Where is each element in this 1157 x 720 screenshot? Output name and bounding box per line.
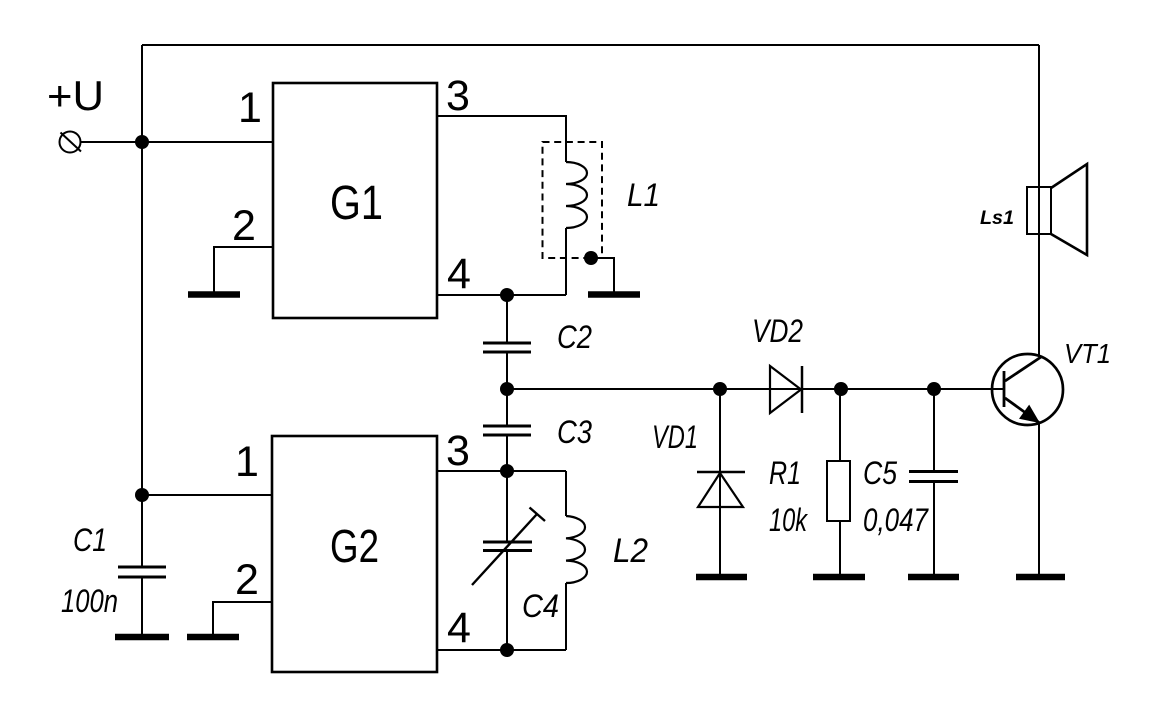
svg-text:0,047: 0,047 [863, 502, 929, 538]
inductor L1 [566, 162, 587, 228]
wire C5 top lead [933, 389, 935, 470]
wire G2 pin 2 [213, 602, 272, 634]
svg-text:G2: G2 [330, 520, 379, 572]
capacitor C1 [118, 567, 166, 577]
wire G1 pin 1 [142, 141, 273, 143]
node C1-pin1 junction [135, 488, 149, 502]
capacitor C2 [483, 343, 531, 352]
svg-text:C4: C4 [522, 588, 559, 624]
svg-text:L1: L1 [627, 177, 660, 213]
wire G1 pin 3 [437, 116, 566, 162]
wire G2 pin 1 [142, 494, 272, 496]
ground VD1 [696, 574, 747, 581]
wire R1 bottom lead [839, 521, 841, 574]
node pin4-C4 junction [500, 643, 514, 657]
wire G1 pin 4 [437, 294, 566, 296]
L1 shield box (dashed) [543, 142, 603, 258]
svg-text:3: 3 [446, 427, 470, 475]
ground C1 [115, 634, 169, 641]
wire L1 bottom [565, 228, 567, 295]
wire C2 bottom lead [506, 354, 508, 390]
wire VD1 branch [719, 389, 721, 574]
variable capacitor C4 [483, 542, 532, 551]
node L1 shield tap [584, 251, 598, 265]
svg-text:1: 1 [238, 84, 262, 132]
wire C1 bottom lead [141, 579, 143, 635]
wire emitter to ground [1038, 423, 1040, 574]
node pin4-C2 junction [500, 288, 514, 302]
svg-text:VD2: VD2 [752, 313, 803, 349]
wire C2 top lead [506, 295, 508, 342]
wire C3 bottom lead [506, 437, 508, 472]
svg-text:G1: G1 [330, 177, 383, 230]
svg-text:Ls1: Ls1 [980, 208, 1014, 229]
wire terminal to rail [81, 141, 143, 143]
wire G2 pin 3 [437, 470, 566, 472]
wire collector rail (top bus to speaker to VT1) [1038, 45, 1040, 356]
svg-text:10k: 10k [769, 502, 808, 538]
svg-text:C2: C2 [557, 319, 592, 355]
svg-text:4: 4 [447, 604, 471, 652]
wire G1 pin 2 [214, 247, 273, 292]
svg-text:3: 3 [446, 72, 470, 120]
svg-text:C5: C5 [863, 455, 897, 491]
IC G2 [272, 436, 437, 672]
svg-text:VD1: VD1 [652, 419, 698, 455]
wire main signal [507, 388, 1004, 390]
svg-text:2: 2 [232, 202, 256, 250]
wire C4 top lead [506, 471, 508, 541]
ground R1 [813, 574, 865, 581]
capacitor C3 [483, 426, 531, 435]
speaker Ls1 [1027, 164, 1087, 255]
resistor R1 [827, 461, 850, 521]
wire top supply bus [142, 44, 1039, 46]
node R1 tap [834, 382, 848, 396]
node VD1 tap [713, 382, 727, 396]
ground L1 shield [588, 291, 640, 298]
diode VD2 [770, 366, 802, 413]
inductor L2 [566, 471, 587, 650]
ground G2 pin 2 [187, 634, 239, 641]
node C5 tap [927, 382, 941, 396]
svg-text:4: 4 [447, 250, 471, 298]
diode VD1 [697, 472, 745, 507]
capacitor C5 [909, 472, 958, 482]
ground VT1 emitter [1016, 574, 1065, 581]
transistor VT1 [992, 354, 1063, 425]
wire shield tap to ground [591, 258, 614, 292]
svg-text:C1: C1 [73, 522, 107, 558]
node +U rail junction [135, 135, 149, 149]
wire C4 bottom lead [506, 552, 508, 650]
svg-text:L2: L2 [613, 532, 648, 570]
wire G2 pin 4 [437, 649, 566, 651]
svg-text:VT1: VT1 [1064, 338, 1111, 369]
node C3-pin3 junction [500, 464, 514, 478]
arrow of C4 [472, 508, 545, 586]
svg-text:C3: C3 [557, 414, 592, 450]
wire C3 top lead [506, 389, 508, 425]
svg-text:100n: 100n [61, 583, 118, 619]
node C2-C3 main junction [500, 382, 514, 396]
svg-text:R1: R1 [769, 455, 801, 491]
IC G1 [273, 83, 437, 318]
ground G1 pin 2 [188, 291, 240, 298]
wire R1 top lead [839, 389, 841, 461]
svg-text:2: 2 [235, 556, 259, 604]
terminal +U [60, 132, 82, 153]
svg-text:1: 1 [235, 438, 259, 486]
ground C5 [908, 574, 959, 581]
wire left +U rail [141, 45, 143, 566]
svg-text:+U: +U [47, 72, 104, 119]
wire C5 bottom lead [933, 483, 935, 574]
